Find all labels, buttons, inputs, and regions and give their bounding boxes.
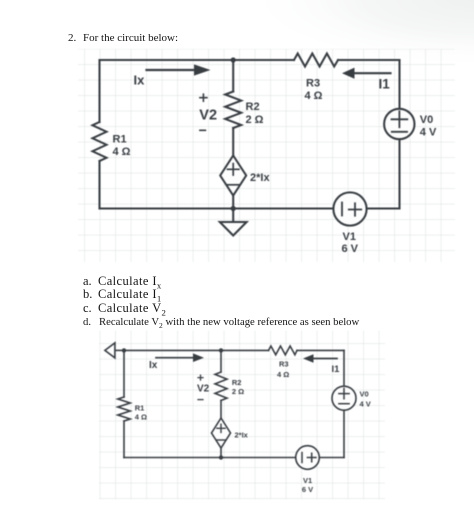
node dot bottom c2 — [219, 455, 223, 459]
dependent source minus c2 — [217, 439, 225, 441]
wire left upper c2 — [123, 350, 125, 397]
voltage source V0 circle — [384, 109, 414, 139]
V1 plus sign — [349, 203, 361, 215]
V0 plus sign — [392, 111, 408, 127]
V0 plus sign c2 — [339, 389, 349, 399]
current arrow I1 shaft — [355, 72, 391, 74]
svg-text:Ix: Ix — [134, 73, 146, 88]
dependent source 2*Ix diamond — [220, 156, 246, 196]
svg-text:2 Ω: 2 Ω — [246, 114, 264, 126]
label V2 minus — [200, 129, 206, 131]
ground left triangle c2 — [105, 343, 115, 358]
svg-text:4 Ω: 4 Ω — [113, 146, 131, 158]
current arrow Ix head c2 — [193, 353, 204, 362]
wire R2 branch upper — [232, 60, 234, 92]
svg-text:I1: I1 — [332, 364, 341, 375]
wire top left segment — [100, 59, 295, 61]
resistor R3 — [294, 54, 338, 67]
ground triangle — [220, 222, 247, 236]
svg-text:V1: V1 — [303, 476, 312, 485]
voltage source V1 circle c2 — [296, 446, 320, 470]
svg-text:V0: V0 — [360, 390, 369, 399]
V0 minus sign — [392, 131, 407, 133]
svg-text:R2: R2 — [232, 378, 242, 387]
svg-text:R1: R1 — [135, 404, 145, 413]
resistor R1 c2 — [118, 397, 130, 421]
node dot top c2 — [219, 348, 223, 352]
wire top left segment c2 — [124, 349, 269, 351]
svg-text:V2: V2 — [199, 108, 217, 124]
wire left lower — [98, 161, 100, 209]
svg-text:4 Ω: 4 Ω — [277, 370, 289, 379]
label V2 minus c2 — [198, 399, 203, 401]
node dot top-left c2 — [122, 348, 126, 352]
wire right — [398, 60, 400, 209]
V1 minus bar c2 — [301, 453, 303, 463]
svg-text:Ix: Ix — [149, 360, 158, 371]
current arrow Ix shaft — [147, 69, 195, 71]
svg-text:4 Ω: 4 Ω — [305, 90, 323, 102]
wire bottom c2 — [124, 457, 344, 459]
dependent source 2*Ix diamond c2 — [212, 418, 231, 448]
current arrow Ix head — [194, 64, 211, 75]
svg-text:I1: I1 — [379, 77, 391, 92]
resistor R2 c2 — [215, 372, 227, 401]
wire left upper — [98, 60, 100, 122]
resistor R3 c2 — [269, 346, 297, 355]
dependent source plus c2 — [217, 424, 225, 432]
svg-text:R3: R3 — [279, 360, 289, 369]
svg-text:4 Ω: 4 Ω — [135, 413, 147, 422]
V1 minus bar — [341, 203, 343, 216]
resistor R2 — [225, 92, 241, 128]
svg-text:2 Ω: 2 Ω — [232, 387, 244, 396]
wire right c2 — [343, 350, 345, 457]
svg-text:R2: R2 — [246, 101, 260, 113]
svg-text:R3: R3 — [306, 78, 320, 90]
voltage source V1 circle — [333, 192, 366, 225]
wire top right segment — [338, 59, 400, 61]
svg-text:V1: V1 — [343, 231, 356, 243]
svg-text:V0: V0 — [420, 114, 433, 126]
node dot bottom — [231, 206, 236, 211]
label V2 plus — [200, 94, 207, 101]
node dot top — [231, 57, 236, 62]
svg-text:2*Ix: 2*Ix — [250, 172, 270, 184]
svg-text:R1: R1 — [113, 134, 127, 146]
wire top right segment c2 — [297, 349, 344, 351]
current arrow I1 head c2 — [303, 354, 314, 363]
wire R2 branch upper c2 — [220, 350, 222, 372]
voltage source V0 circle c2 — [332, 386, 356, 410]
current arrow I1 shaft c2 — [314, 358, 338, 360]
wire R2 to diamond — [232, 128, 234, 156]
svg-text:6 V: 6 V — [302, 485, 313, 494]
wire diamond to bottom c2 — [220, 448, 222, 458]
V1 plus sign c2 — [307, 453, 316, 462]
ground stub — [232, 209, 234, 223]
current arrow Ix shaft c2 — [156, 357, 193, 359]
title — [68, 32, 76, 44]
grid background circuit 2 — [99, 331, 385, 500]
svg-text:V2: V2 — [197, 384, 210, 395]
wire left lower c2 — [123, 421, 125, 458]
dependent source plus — [228, 164, 239, 175]
current arrow I1 head — [342, 68, 355, 79]
svg-text:6 V: 6 V — [342, 243, 359, 255]
top-right light photo wash — [230, 0, 474, 80]
wire diamond to bottom — [232, 196, 234, 209]
question list — [83, 274, 92, 289]
wire bottom — [100, 207, 400, 209]
svg-text:4 V: 4 V — [420, 127, 437, 139]
label V2 plus c2 — [198, 375, 203, 380]
resistor R1 — [93, 122, 107, 161]
V0 minus sign c2 — [339, 403, 349, 405]
svg-text:4 V: 4 V — [360, 400, 371, 409]
wire R2 to diamond c2 — [220, 401, 222, 419]
dependent source minus — [227, 184, 239, 186]
grid background circuit 1 — [78, 49, 455, 262]
ground left stub c2 — [115, 349, 124, 351]
svg-text:2*Ix: 2*Ix — [235, 431, 249, 440]
